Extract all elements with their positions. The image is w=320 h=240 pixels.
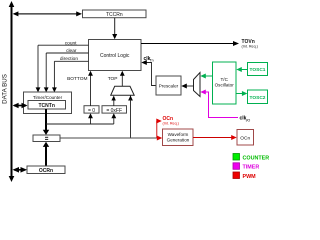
wire bus-TCNTn	[13, 103, 28, 108]
svg-text:I/O: I/O	[246, 118, 251, 122]
pin TOSC1	[248, 63, 268, 76]
svg-text:count: count	[65, 40, 77, 46]
wire TCCRn-ControlLogic	[112, 18, 117, 40]
wire OCRn-comparator	[43, 142, 49, 166]
wire to =0	[88, 113, 93, 124]
counter box Timer/Counter	[24, 92, 72, 114]
svg-text:(Int. Req.): (Int. Req.)	[163, 122, 179, 126]
wire TCNTn-comparator	[43, 109, 49, 135]
wire TOSC1-oscillator	[236, 67, 247, 72]
mux clock select	[194, 73, 201, 97]
mux TOP select	[111, 86, 135, 95]
wire count	[36, 45, 89, 92]
wire into waveform generation	[157, 136, 163, 141]
wire clk_IO-mux	[200, 90, 238, 118]
wire clear	[44, 53, 89, 92]
pin TOSC2	[248, 90, 268, 104]
svg-text:OCn: OCn	[240, 136, 250, 142]
svg-text:DATA BUS: DATA BUS	[2, 74, 9, 104]
svg-text:COUNTER: COUNTER	[243, 155, 270, 161]
svg-text:T/C: T/C	[220, 77, 228, 82]
svg-text:TOP: TOP	[108, 76, 118, 82]
svg-text:TCCRn: TCCRn	[106, 12, 123, 18]
wire bus-TCCRn	[13, 11, 82, 16]
svg-text:Control Logic: Control Logic	[100, 53, 130, 59]
label TOVn (Int.Req.)	[242, 39, 258, 49]
legend pwm swatch	[233, 172, 240, 179]
prescaler box	[156, 76, 181, 95]
svg-text:Tn: Tn	[150, 59, 154, 63]
wire oscillator-TOSC2	[236, 91, 247, 96]
wire BOTTOM	[88, 71, 93, 106]
data bus line	[9, 1, 15, 182]
svg-text:OCRn: OCRn	[39, 168, 53, 174]
detector =0xFF	[102, 106, 127, 114]
svg-text:Timer/Counter: Timer/Counter	[33, 95, 63, 100]
register OCRn	[27, 166, 65, 174]
wire =0xFF to TOP mux	[111, 96, 115, 107]
wire mux-prescaler	[181, 84, 193, 89]
legend timer swatch	[233, 163, 240, 170]
wire comparator-waveform	[60, 137, 157, 139]
register TCCRn	[83, 10, 147, 18]
svg-text:direction: direction	[60, 56, 78, 62]
svg-text:Waveform: Waveform	[168, 132, 189, 137]
wire waveform-OCn	[193, 135, 237, 140]
svg-text:clear: clear	[66, 48, 77, 54]
wire mux right input from compare line	[128, 95, 133, 138]
oscillator box T/C	[213, 62, 237, 104]
wire direction	[52, 61, 89, 92]
label clk_IO	[240, 116, 251, 123]
svg-text:= 0: = 0	[88, 108, 95, 114]
control logic box	[89, 40, 142, 71]
svg-text:Generation: Generation	[167, 138, 190, 143]
svg-text:(Int. Req.): (Int. Req.)	[242, 44, 258, 48]
comparator =	[33, 135, 60, 142]
register TCNTn	[28, 101, 66, 110]
svg-text:Prescaler: Prescaler	[159, 84, 179, 89]
label OCn (Int.Req.)	[163, 116, 179, 126]
waveform generation box	[163, 129, 194, 146]
legend counter swatch	[233, 154, 240, 161]
pin OCn	[237, 130, 254, 146]
svg-text:BOTTOM: BOTTOM	[67, 76, 87, 82]
label clk_Tn	[144, 56, 154, 63]
wire clk_Tn	[141, 60, 156, 86]
svg-text:= 0xFF: = 0xFF	[106, 108, 122, 114]
svg-text:TCNTn: TCNTn	[39, 103, 55, 109]
detector =0	[84, 106, 99, 114]
wire bus-OCRn	[13, 167, 28, 173]
svg-text:TOSC2: TOSC2	[250, 95, 266, 101]
wire OCn int req branch	[156, 119, 162, 139]
wire oscillator-mux	[200, 74, 212, 79]
wire TOVn	[141, 41, 239, 46]
svg-text:PWM: PWM	[243, 174, 257, 180]
wire TCNTn branch to detectors	[46, 123, 114, 125]
svg-text:TIMER: TIMER	[243, 165, 260, 171]
svg-text:TOSC1: TOSC1	[250, 67, 266, 73]
wire TOP	[120, 71, 125, 87]
svg-text:Oscillator: Oscillator	[215, 83, 235, 88]
wire to =0xFF	[111, 113, 116, 124]
